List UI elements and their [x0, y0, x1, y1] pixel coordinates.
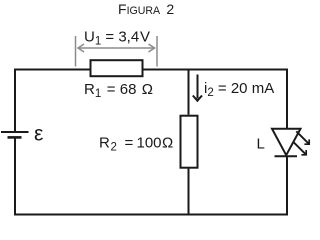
LED light arrow 2 — [293, 142, 306, 155]
svg-text:L: L — [257, 136, 265, 153]
wire middle vertical lower (R2 to bottom) — [188, 169, 190, 216]
wire top-left horizontal — [14, 69, 92, 71]
LED cathode bar — [275, 155, 298, 157]
resistor R2 body — [181, 116, 198, 168]
svg-text:U1 = 3,4V: U1 = 3,4V — [84, 29, 150, 48]
battery cell E: long plate — [1, 131, 29, 133]
LED D1 triangle — [272, 129, 301, 156]
wire top-right horizontal — [143, 69, 289, 71]
voltage U1 double arrow — [78, 44, 156, 52]
resistor R1 body — [91, 60, 143, 76]
svg-text:R1 = 68 Ω: R1 = 68 Ω — [84, 81, 153, 100]
voltage U1 measurement ticks (left) — [75, 36, 77, 67]
voltage U1 measurement ticks (right) — [156, 36, 158, 67]
wire right vertical upper (to LED) — [286, 69, 288, 130]
LED light arrow 1 — [296, 131, 309, 144]
wire left vertical upper — [14, 69, 16, 133]
current i2 arrow — [193, 75, 202, 101]
wire middle vertical upper (junction to R2) — [188, 69, 190, 115]
wire bottom horizontal — [14, 214, 288, 216]
svg-text:i2 = 20 mA: i2 = 20 mA — [204, 80, 274, 99]
battery cell E: short plate — [8, 136, 22, 139]
svg-text:ε: ε — [34, 123, 43, 146]
wire right vertical lower (LED to bottom) — [286, 156, 288, 215]
wire left vertical lower — [14, 137, 16, 215]
